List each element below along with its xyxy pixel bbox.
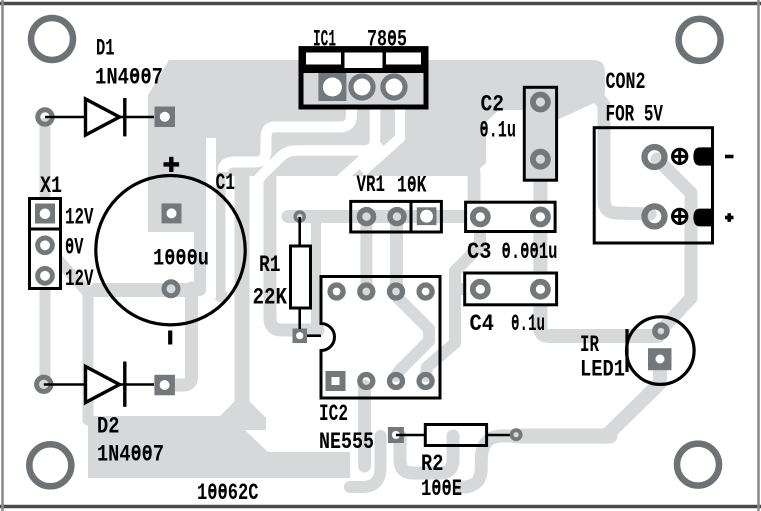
svg-text:R2: R2 bbox=[421, 451, 444, 477]
svg-text:1N4007: 1N4007 bbox=[95, 65, 163, 91]
svg-text:7805: 7805 bbox=[367, 27, 407, 53]
svg-text:IC2: IC2 bbox=[319, 401, 348, 427]
svg-text:10062C: 10062C bbox=[197, 480, 259, 506]
svg-text:D1: D1 bbox=[96, 36, 115, 62]
svg-text:R1: R1 bbox=[259, 252, 281, 278]
svg-text:0.001u: 0.001u bbox=[502, 239, 558, 265]
svg-text:C3: C3 bbox=[467, 239, 492, 265]
svg-text:D2: D2 bbox=[97, 414, 120, 440]
svg-text:10K: 10K bbox=[397, 173, 427, 199]
svg-text:C4: C4 bbox=[470, 311, 495, 337]
svg-text:0.1u: 0.1u bbox=[511, 311, 545, 337]
svg-text:0.1u: 0.1u bbox=[480, 118, 517, 144]
svg-text:IC1: IC1 bbox=[313, 27, 336, 53]
svg-text:X1: X1 bbox=[40, 173, 62, 199]
svg-text:NE555: NE555 bbox=[319, 429, 374, 455]
svg-text:IR: IR bbox=[580, 332, 599, 358]
svg-text:FOR 5V: FOR 5V bbox=[606, 102, 664, 128]
svg-text:C1: C1 bbox=[216, 170, 236, 196]
svg-text:100E: 100E bbox=[421, 476, 462, 502]
svg-text:12V: 12V bbox=[65, 205, 94, 231]
svg-text:22K: 22K bbox=[253, 285, 288, 311]
svg-text:LED1: LED1 bbox=[580, 357, 625, 383]
svg-text:1N4007: 1N4007 bbox=[97, 442, 164, 468]
svg-text:12V: 12V bbox=[65, 266, 94, 292]
svg-text:1000u: 1000u bbox=[153, 246, 209, 272]
svg-text:0V: 0V bbox=[65, 235, 84, 261]
svg-text:C2: C2 bbox=[481, 92, 505, 118]
svg-text:CON2: CON2 bbox=[606, 69, 646, 95]
svg-text:VR1: VR1 bbox=[357, 172, 386, 198]
